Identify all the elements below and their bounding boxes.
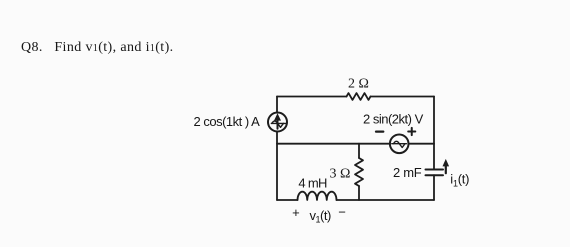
svg-text:i1(t): i1(t)	[450, 172, 469, 189]
label minus v1	[338, 205, 346, 220]
svg-text:2 sin(2kt) V: 2 sin(2kt) V	[363, 112, 424, 127]
inductor L1 4mH	[298, 192, 337, 200]
label i1(t)	[450, 172, 469, 189]
svg-text:v1(t): v1(t)	[310, 208, 331, 225]
label resistor 2 ohm	[348, 77, 369, 92]
svg-text:3 Ω: 3 Ω	[330, 167, 351, 182]
label resistor 3 ohm	[330, 167, 351, 182]
resistor R2 3ohm	[355, 158, 363, 186]
svg-text:+: +	[292, 205, 300, 220]
wire middle left	[277, 143, 390, 145]
current source I1 sine	[271, 121, 286, 127]
wire right top segment	[433, 97, 435, 170]
svg-text:−: −	[338, 205, 346, 220]
voltage source V1 plus sign	[408, 128, 415, 135]
label plus v1	[292, 205, 300, 220]
label voltage source 2 sin(2kt) V	[363, 112, 424, 127]
label capacitor 2 mF	[393, 165, 422, 180]
wire bottom left	[277, 199, 298, 201]
wire middle right	[408, 143, 434, 145]
current source I1 arrow	[274, 113, 281, 129]
svg-text:4 mH: 4 mH	[298, 176, 327, 191]
label inductor 4 mH	[298, 176, 327, 191]
wire resistor R1 to top-right corner	[371, 96, 435, 98]
voltage source V1 sine	[392, 141, 407, 147]
svg-text:2 Ω: 2 Ω	[348, 77, 369, 92]
svg-text:2 mF: 2 mF	[393, 165, 422, 180]
title text Q8	[21, 40, 174, 55]
wire left bottom segment	[276, 131, 278, 200]
current source I1 circle	[268, 113, 287, 132]
wire bottom right	[337, 199, 435, 201]
voltage source V1 circle	[390, 135, 409, 154]
i1 arrow	[443, 159, 450, 173]
svg-text:2 cos(1kt ) A: 2 cos(1kt ) A	[194, 114, 261, 129]
wire 3ohm branch top	[358, 144, 360, 158]
wire left top segment	[276, 97, 278, 113]
wire right bottom segment	[433, 175, 435, 200]
svg-text:Q8. Find v1(t), and i1(t).: Q8. Find v1(t), and i1(t).	[21, 40, 174, 55]
wire top-left to resistor R1	[277, 96, 347, 98]
voltage source V1 minus sign	[376, 131, 383, 133]
resistor R1 2ohm	[347, 93, 371, 100]
label v1(t)	[310, 208, 331, 225]
wire 3ohm branch bottom	[358, 186, 360, 200]
label current source 2 cos(1kt) A	[194, 114, 261, 129]
capacitor C1 plates	[426, 170, 444, 176]
